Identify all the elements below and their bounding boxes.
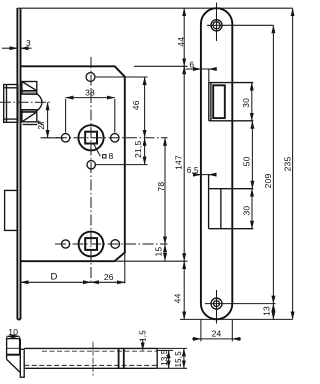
svg-text:21,5: 21,5 bbox=[133, 141, 143, 158]
svg-text:13,5: 13,5 bbox=[160, 349, 169, 366]
svg-text:15: 15 bbox=[154, 247, 164, 257]
dimension 10 bbox=[7, 336, 20, 339]
deadbolt (left of plate, lower) bbox=[5, 190, 18, 230]
dimension 15,5 bbox=[183, 348, 185, 368]
svg-text:209: 209 bbox=[263, 174, 273, 189]
leader to square label bbox=[94, 144, 101, 157]
circle below hub bbox=[87, 161, 95, 169]
svg-text:3: 3 bbox=[26, 38, 31, 48]
extensions for 13,5 / 15,5 bbox=[157, 348, 187, 368]
dimension 235 bbox=[292, 8, 294, 319]
dimension 78 bbox=[164, 138, 166, 245]
dimension 27 bbox=[47, 102, 49, 138]
lower follower hub bbox=[79, 232, 104, 257]
centerline in side view bbox=[92, 342, 94, 376]
bottom screw hole bbox=[211, 298, 222, 309]
deadbolt cutout bbox=[209, 175, 254, 229]
svg-text:46: 46 bbox=[131, 100, 141, 110]
top screw hole bbox=[211, 20, 222, 31]
svg-text:50: 50 bbox=[242, 156, 252, 166]
hub side circles bbox=[61, 134, 69, 142]
latch inside case bbox=[22, 82, 44, 126]
bottom extension line bbox=[180, 318, 293, 320]
faceplate edge strip bbox=[17, 8, 20, 319]
latch bolt head (left of plate) bbox=[4, 85, 18, 123]
faceplate bar side view bbox=[20, 349, 24, 377]
svg-text:15,5: 15,5 bbox=[174, 351, 183, 368]
extension for 26 bbox=[124, 253, 126, 284]
latch bolt head side view bbox=[7, 339, 21, 373]
svg-text:6: 6 bbox=[189, 60, 194, 70]
svg-text:78: 78 bbox=[156, 182, 166, 192]
dimension 13 bbox=[272, 304, 274, 320]
dimension 30 upper bbox=[251, 83, 253, 121]
top hole circle bbox=[86, 73, 95, 82]
svg-text:26: 26 bbox=[104, 272, 114, 282]
svg-text:30: 30 bbox=[242, 206, 252, 216]
vertical centerline bbox=[90, 57, 92, 284]
extension from lower circle (21.5 dim) bbox=[96, 164, 148, 166]
extension from top circle (46 dim) bbox=[95, 76, 148, 78]
latch centerline bbox=[0, 101, 50, 103]
case bottom extension line bbox=[115, 260, 188, 262]
dimension 6,5 bbox=[193, 174, 216, 176]
svg-text:27: 27 bbox=[36, 120, 46, 130]
lower hub side circles bbox=[62, 240, 70, 248]
dimension 26 bbox=[91, 281, 125, 283]
label square 8 bbox=[103, 155, 106, 158]
svg-text:44: 44 bbox=[176, 37, 186, 47]
extension for 27 dim at hub centerline bbox=[41, 137, 64, 139]
upper hub centerline bbox=[56, 137, 168, 139]
hub band in side view bbox=[118, 348, 120, 368]
svg-text:24: 24 bbox=[212, 329, 222, 339]
faceplate outline bbox=[201, 8, 232, 319]
svg-text:1,5: 1,5 bbox=[138, 330, 147, 342]
dimension 6 bbox=[184, 66, 216, 82]
top extension line y=8 bbox=[17, 7, 292, 9]
square spindle hole 8mm bbox=[85, 132, 97, 144]
dimension D bbox=[21, 281, 92, 283]
dimension 50 bbox=[251, 121, 253, 189]
lock case outline bbox=[21, 66, 125, 261]
svg-text:8: 8 bbox=[109, 151, 114, 161]
upper follower hub bbox=[78, 125, 103, 150]
svg-text:6,5: 6,5 bbox=[187, 166, 199, 175]
svg-text:147: 147 bbox=[174, 155, 184, 170]
dimension 24 bbox=[192, 319, 241, 341]
svg-text:10: 10 bbox=[8, 327, 18, 337]
svg-text:44: 44 bbox=[173, 293, 183, 303]
svg-text:13: 13 bbox=[261, 306, 271, 316]
dimension chain 44 / 147 / 44 bbox=[183, 8, 185, 319]
dimension 3 (faceplate thickness) bbox=[2, 47, 32, 49]
dimension 13,5 bbox=[168, 350, 170, 368]
dimension 209 bbox=[272, 25, 274, 303]
latch cutout bbox=[209, 83, 254, 121]
lock case side view bbox=[24, 348, 157, 368]
dimension chain 46 / 21.5 / 15 bbox=[145, 77, 165, 261]
lower hub centerline bbox=[55, 243, 168, 245]
case top extension line bbox=[134, 65, 188, 67]
svg-text:D: D bbox=[50, 272, 57, 283]
lower square hole bbox=[85, 238, 97, 250]
svg-text:30: 30 bbox=[241, 98, 251, 108]
dimension 1,5 bbox=[142, 339, 144, 350]
svg-text:38: 38 bbox=[85, 88, 95, 98]
dimension 30 lower bbox=[251, 189, 253, 229]
svg-text:235: 235 bbox=[283, 157, 293, 172]
dimension 38 bbox=[66, 98, 115, 133]
